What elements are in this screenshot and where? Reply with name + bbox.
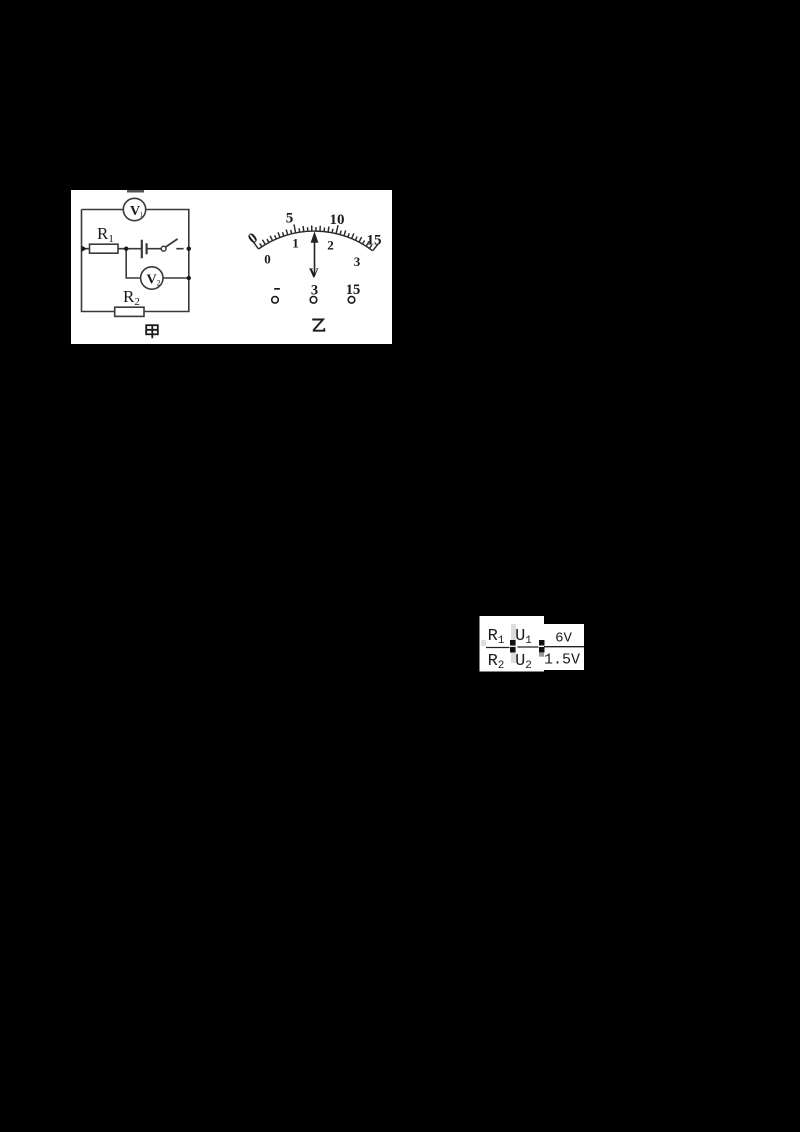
svg-text:2: 2 [157, 279, 161, 288]
svg-text:1.5V: 1.5V [544, 651, 580, 668]
svg-text:5: 5 [286, 211, 294, 227]
svg-text:V: V [147, 273, 157, 288]
svg-text:15: 15 [367, 233, 382, 249]
svg-text:3: 3 [354, 254, 361, 269]
svg-text:6V: 6V [555, 631, 572, 647]
svg-text:15: 15 [346, 282, 361, 298]
svg-text:V: V [309, 267, 319, 282]
svg-text:1: 1 [140, 211, 144, 219]
svg-text:2: 2 [327, 238, 334, 253]
svg-text:1: 1 [292, 236, 299, 251]
svg-text:10: 10 [330, 212, 345, 228]
svg-text:0: 0 [264, 252, 271, 267]
